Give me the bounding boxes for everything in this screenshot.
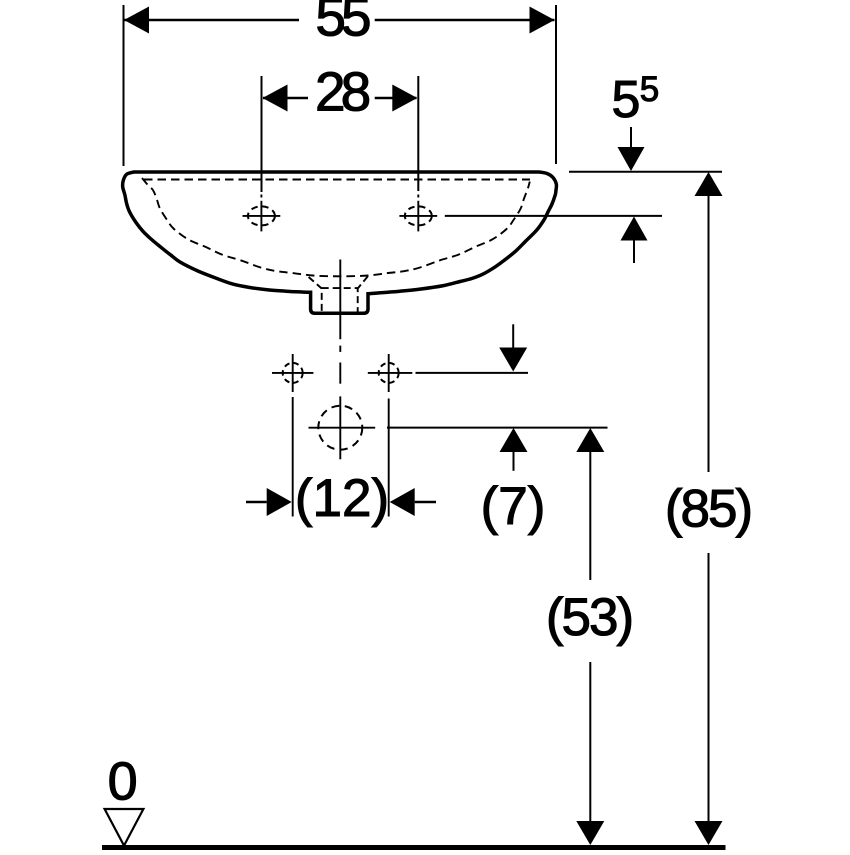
- 28 dimension line right segment: [375, 97, 417, 99]
- dimension (7): [481, 324, 546, 536]
- (53) down arrowhead: [576, 821, 604, 845]
- basin vertical centerline: [339, 260, 341, 384]
- 28 left extension line: [261, 76, 263, 192]
- svg-text:5: 5: [612, 71, 641, 129]
- 55 left arrowhead: [124, 7, 149, 34]
- dimension 5^5: [612, 70, 660, 263]
- left tap hole: [243, 195, 281, 232]
- right tap hole: [399, 195, 437, 232]
- drain pipe dashed rectangle: [322, 288, 358, 313]
- (85) line upper segment: [708, 195, 710, 472]
- svg-text:28: 28: [315, 61, 370, 123]
- 55 right arrowhead: [530, 7, 555, 34]
- 55 left extension line: [123, 5, 125, 166]
- svg-text:(7): (7): [481, 477, 546, 536]
- svg-text:(85): (85): [665, 480, 751, 539]
- (53) line upper segment: [589, 451, 591, 580]
- drain reference line: [387, 427, 608, 429]
- dimension (53): [546, 428, 632, 845]
- dimension 28: [262, 61, 419, 193]
- svg-text:0: 0: [108, 752, 138, 812]
- svg-text:55: 55: [315, 0, 370, 48]
- (12) right extension line: [388, 399, 390, 517]
- 5^5 down arrow: [630, 127, 632, 152]
- svg-text:5: 5: [640, 70, 659, 109]
- (85) up arrowhead: [695, 172, 723, 196]
- 28 right extension line: [417, 76, 419, 191]
- (12) right leader + arrowhead: [415, 501, 436, 503]
- mounting holes reference line: [416, 372, 529, 374]
- mounting hole right: [368, 354, 413, 392]
- drain hole circle: [309, 396, 376, 459]
- dimension 55: [124, 0, 557, 166]
- dimension (85): [665, 172, 751, 845]
- 55 right extension line: [555, 5, 557, 164]
- (53) up arrowhead: [576, 428, 604, 452]
- datum zero label: [108, 752, 138, 812]
- 28 left arrowhead: [263, 85, 288, 112]
- basin inner bowl dashed curve: [142, 178, 530, 276]
- drain trapezoid dashed sides: [309, 276, 368, 288]
- svg-text:(53): (53): [546, 588, 632, 647]
- basin inner rim dashed line: [144, 179, 530, 181]
- dimension (12): [246, 397, 436, 528]
- mounting hole left: [272, 354, 313, 392]
- (53) line lower segment: [589, 662, 591, 822]
- (7) down arrow: [512, 324, 514, 350]
- (85) line lower segment: [708, 553, 710, 822]
- (85) down arrowhead: [695, 821, 723, 845]
- datum triangle: [105, 809, 144, 846]
- (7) up arrow: [500, 428, 528, 452]
- 55 dimension line left segment: [124, 19, 299, 21]
- washbasin outer outline: [123, 172, 557, 313]
- tap hole reference line: [445, 215, 662, 217]
- ground line: [102, 845, 726, 850]
- (12) left leader + arrowhead: [246, 501, 267, 503]
- 55 dimension line right segment: [375, 19, 555, 21]
- svg-text:(12): (12): [295, 469, 389, 528]
- (12) left extension line: [292, 397, 294, 517]
- top reference line: [569, 171, 722, 173]
- 5^5 up arrow: [621, 217, 648, 241]
- 28 dimension line left segment: [263, 97, 308, 99]
- 28 right arrowhead: [392, 85, 417, 112]
